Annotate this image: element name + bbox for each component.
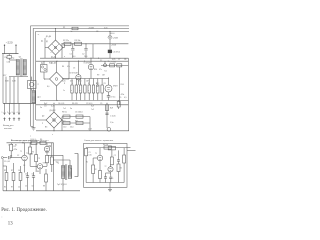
svg-text:R1: R1 xyxy=(15,145,17,147)
svg-text:Т2: Т2 xyxy=(45,163,47,165)
svg-text:0,5: 0,5 xyxy=(124,97,127,99)
svg-text:R8: R8 xyxy=(43,185,45,187)
svg-text:-250В: -250В xyxy=(113,37,119,39)
svg-text:R10: R10 xyxy=(94,69,97,71)
svg-text:R10: R10 xyxy=(62,120,65,122)
svg-text:П13: П13 xyxy=(48,146,51,148)
svg-text:С7: С7 xyxy=(118,59,120,61)
svg-text:R8 1к: R8 1к xyxy=(62,111,67,113)
svg-text:R4 10к: R4 10к xyxy=(103,144,108,146)
svg-text:С3: С3 xyxy=(73,68,75,70)
svg-text:50,0: 50,0 xyxy=(70,127,74,129)
svg-text:С9: С9 xyxy=(100,103,102,105)
svg-text:Т1: Т1 xyxy=(26,153,28,155)
svg-text:Зв: Зв xyxy=(70,108,72,110)
svg-text:С10: С10 xyxy=(63,127,66,129)
svg-text:0,25: 0,25 xyxy=(51,106,55,108)
svg-text:0,05: 0,05 xyxy=(62,80,66,82)
svg-text:R4: R4 xyxy=(30,142,32,144)
svg-text:+: + xyxy=(113,178,114,180)
svg-text:R5: R5 xyxy=(120,168,122,170)
svg-text:Д2: Д2 xyxy=(46,41,48,43)
svg-text:2: 2 xyxy=(7,112,8,114)
svg-text:R3: R3 xyxy=(10,155,12,157)
svg-text:Т1: Т1 xyxy=(95,153,97,155)
svg-text:С1 0,05: С1 0,05 xyxy=(4,161,10,163)
svg-text:С2: С2 xyxy=(114,155,116,157)
svg-text:С4 0,05: С4 0,05 xyxy=(58,103,64,105)
svg-text:Выход для: Выход для xyxy=(3,125,13,127)
svg-text:Гр1 1ГД-18: Гр1 1ГД-18 xyxy=(57,184,67,186)
svg-text:С4: С4 xyxy=(18,170,20,172)
svg-text::: : xyxy=(2,215,3,219)
svg-text:Схема для записи с приемника: Схема для записи с приемника xyxy=(84,140,114,142)
svg-text:R2: R2 xyxy=(95,169,97,171)
svg-text:С1: С1 xyxy=(89,152,91,154)
svg-text:С8: С8 xyxy=(96,31,98,33)
svg-text:С6: С6 xyxy=(32,173,34,175)
svg-text:С 0,05: С 0,05 xyxy=(110,115,116,117)
svg-text:R1: R1 xyxy=(63,27,65,29)
svg-text:Т2: Т2 xyxy=(105,166,107,168)
svg-text:-250В: -250В xyxy=(111,44,117,46)
svg-text:В3: В3 xyxy=(45,127,47,129)
svg-text:R4: R4 xyxy=(62,66,64,68)
svg-text:а: а xyxy=(64,56,65,58)
svg-text:6Н2П: 6Н2П xyxy=(113,86,118,88)
svg-text:Гн1: Гн1 xyxy=(104,71,107,73)
svg-text:25,0: 25,0 xyxy=(78,80,82,82)
svg-text:R7: R7 xyxy=(11,170,13,172)
svg-text:R4 4,7к: R4 4,7к xyxy=(31,139,37,141)
svg-text:R14: R14 xyxy=(121,84,124,86)
svg-text:1к: 1к xyxy=(63,90,65,92)
svg-text:С7 0,05: С7 0,05 xyxy=(110,62,116,64)
svg-text:R8: R8 xyxy=(37,171,39,173)
svg-text:Л1: Л1 xyxy=(104,83,106,85)
svg-text:Т1: Т1 xyxy=(20,151,22,153)
svg-text:С3: С3 xyxy=(38,158,40,160)
svg-text:+300В: +300В xyxy=(88,27,95,29)
svg-text:С6 100,0: С6 100,0 xyxy=(75,111,83,113)
svg-text:Др1: Др1 xyxy=(38,97,41,99)
svg-text:R3 33к: R3 33к xyxy=(75,40,81,42)
svg-text:470к: 470к xyxy=(14,149,18,151)
svg-text:R5: R5 xyxy=(4,170,6,172)
svg-text:Др: Др xyxy=(41,63,43,65)
svg-text:Л2 6П14П: Л2 6П14П xyxy=(70,73,79,75)
svg-text:Гн1: Гн1 xyxy=(63,108,66,110)
svg-text:Гн2: Гн2 xyxy=(91,109,94,111)
svg-text:R11: R11 xyxy=(75,120,78,122)
svg-text:Рис. 1. Продолжение.: Рис. 1. Продолжение. xyxy=(1,208,47,213)
svg-text:С2: С2 xyxy=(17,155,19,157)
svg-text:С9: С9 xyxy=(119,97,121,99)
svg-text:С4: С4 xyxy=(18,187,20,189)
svg-text:0,25: 0,25 xyxy=(112,59,115,61)
svg-text:R9: R9 xyxy=(97,74,99,76)
svg-text:С9 0,5: С9 0,5 xyxy=(110,97,115,99)
svg-text:П13: П13 xyxy=(30,153,33,155)
svg-text:470: 470 xyxy=(70,80,73,82)
svg-text:С8: С8 xyxy=(124,59,126,61)
svg-text:47к: 47к xyxy=(67,66,70,68)
svg-text:С5: С5 xyxy=(25,185,27,187)
svg-text:13: 13 xyxy=(8,221,13,226)
svg-text:R2: R2 xyxy=(22,142,24,144)
svg-text:3: 3 xyxy=(12,112,13,114)
svg-text:С6: С6 xyxy=(32,185,34,187)
svg-text:Тр: Тр xyxy=(57,163,59,165)
svg-text:20,0: 20,0 xyxy=(72,56,75,58)
svg-text:Д9-Д12: Д9-Д12 xyxy=(50,110,56,112)
svg-text:R6: R6 xyxy=(40,139,42,141)
svg-text:R2 22к: R2 22к xyxy=(63,40,69,42)
svg-text:0,05: 0,05 xyxy=(104,27,108,29)
svg-text:470к: 470к xyxy=(121,94,125,96)
svg-text:С3: С3 xyxy=(23,165,25,167)
svg-text:~220: ~220 xyxy=(6,41,13,45)
svg-text:100,0: 100,0 xyxy=(45,152,49,154)
svg-text:R7: R7 xyxy=(11,187,13,189)
svg-text:Л1 6Н2П: Л1 6Н2П xyxy=(84,63,92,65)
svg-text:Л: Л xyxy=(38,84,39,86)
svg-text:20,0: 20,0 xyxy=(84,56,87,58)
svg-text:47к: 47к xyxy=(99,69,102,71)
svg-text:С5 50,0: С5 50,0 xyxy=(86,103,92,105)
svg-text:8мк: 8мк xyxy=(49,63,52,65)
svg-text:Тр1: Тр1 xyxy=(19,56,22,58)
svg-text:питания: питания xyxy=(4,128,12,130)
svg-text:8,0: 8,0 xyxy=(47,86,49,88)
svg-text:С1: С1 xyxy=(8,145,10,147)
svg-text:Д1: Д1 xyxy=(41,41,43,43)
svg-text:R6 470: R6 470 xyxy=(72,103,78,105)
svg-text:С3: С3 xyxy=(44,106,46,108)
svg-text:R5: R5 xyxy=(4,187,6,189)
svg-text:Зв: Зв xyxy=(40,107,42,109)
svg-text:0,05: 0,05 xyxy=(89,154,92,156)
svg-text:С6 470,0: С6 470,0 xyxy=(113,51,120,53)
svg-text:R6: R6 xyxy=(39,142,41,144)
svg-text:300-0: 300-0 xyxy=(110,33,115,35)
svg-text:Др2: Др2 xyxy=(44,103,47,105)
svg-text:R1: R1 xyxy=(86,161,88,163)
svg-text:1,5к: 1,5к xyxy=(110,122,114,124)
svg-text:1: 1 xyxy=(2,112,3,114)
svg-text:Д1-Д4: Д1-Д4 xyxy=(46,36,51,38)
svg-text:С5: С5 xyxy=(25,173,27,175)
svg-text:4: 4 xyxy=(17,112,18,114)
svg-text:1к: 1к xyxy=(71,31,73,33)
svg-text:Д9: Д9 xyxy=(42,115,44,117)
svg-text:R12: R12 xyxy=(96,83,99,85)
